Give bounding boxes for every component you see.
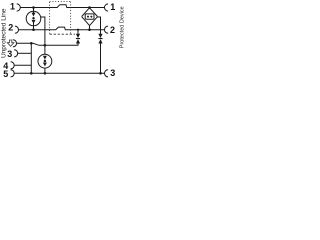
svg-text:2: 2 (8, 22, 13, 32)
node line1 / F1 (32, 6, 35, 9)
node line2 / D1 branch (77, 29, 79, 31)
gas discharge tube F2 (lower, in earth path) (38, 54, 52, 68)
terminal number labels (3, 2, 115, 80)
wire terminal 4 lead (14, 64, 31, 66)
wire bottom earth rail terminal 5 (14, 72, 104, 74)
node line2 / V1 (88, 28, 91, 31)
wire top rail line1 with decoupling hump (20, 5, 104, 8)
node earth rail / D2 (99, 72, 102, 75)
svg-text:Protected Device: Protected Device (120, 6, 125, 48)
terminal 1) (17, 4, 21, 11)
terminal socket arcs right (104, 4, 108, 77)
wire terminal 3 lead (18, 52, 32, 54)
svg-text:Unprotected Line: Unprotected Line (0, 8, 7, 58)
terminal arrow) (13, 40, 17, 47)
svg-text:3: 3 (7, 49, 12, 59)
node ground wire / bus (30, 42, 33, 45)
junction dots (30, 6, 102, 74)
node earth rail / F2 (44, 72, 47, 75)
wire gas tube side electrode down to ground node (41, 17, 45, 54)
wire ground collection horizontal (17, 43, 79, 45)
terminal (2 (105, 26, 109, 33)
svg-text:2: 2 (110, 25, 115, 35)
svg-text:5: 5 (3, 69, 8, 79)
terminal (3 (104, 70, 108, 77)
node line2 / F1 (32, 28, 35, 31)
node ground wire / tube line (44, 44, 47, 47)
terminal 4) (11, 62, 15, 69)
svg-text:1: 1 (110, 2, 115, 12)
terminal (1 (105, 4, 109, 11)
node earth rail / bus (30, 72, 33, 75)
svg-text:3: 3 (110, 68, 115, 78)
terminal 2) (15, 26, 19, 33)
svg-text:1: 1 (10, 2, 15, 12)
terminal socket arcs left (11, 4, 21, 77)
suppressor diode D1 (bidirectional, left branch) (76, 30, 80, 46)
boundary dotted box (50, 2, 75, 35)
wire ground bus vertical left (30, 43, 32, 73)
terminal 3) (14, 50, 18, 57)
suppressor network V1 (diamond with element) (82, 8, 98, 30)
earth arrow glyph at unlabeled terminal (7, 40, 14, 46)
wire ground through lower tube to earth rail (44, 68, 46, 73)
wire line2 rail with decoupling hump (19, 27, 105, 30)
terminal 5) (11, 70, 15, 77)
node line1 / V1 (88, 6, 91, 9)
gas discharge tube F1 (3-electrode) (26, 8, 41, 30)
suppressor diode D2 (bidirectional, right branch from diamond vertex) (98, 17, 103, 73)
